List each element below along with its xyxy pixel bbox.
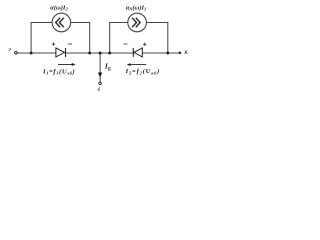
current source J1 circle (left) xyxy=(52,13,71,32)
diode VD1 (left, emitter junction) triangle xyxy=(56,48,65,57)
wire left loop right vertical xyxy=(89,23,91,54)
wire left loop top left xyxy=(31,22,53,24)
diode VD2 (right, collector junction) triangle xyxy=(134,48,142,57)
terminal base (open circle) xyxy=(99,82,102,85)
current arrow IB (on base branch, pointing down) xyxy=(98,73,102,78)
wire right loop left vertical xyxy=(109,23,111,54)
current source J2 circle (right) xyxy=(128,13,147,32)
svg-text:I2=f2(Uкб): I2=f2(Uкб) xyxy=(125,68,161,75)
current arrow I2 (under right diode, pointing left) xyxy=(127,63,146,66)
label - (left diode cathode) xyxy=(68,43,72,45)
svg-text:к: к xyxy=(184,47,188,56)
wire bottom rail right segment xyxy=(142,52,179,54)
label + (left diode anode) xyxy=(52,42,56,45)
current source J1 chevrons << xyxy=(56,18,64,28)
svg-text:э: э xyxy=(8,47,11,53)
terminal emitter (open circle) xyxy=(15,52,18,55)
svg-text:б: б xyxy=(98,86,101,93)
wire bottom rail left segment xyxy=(18,52,56,54)
svg-text:I1=f1(Uэб): I1=f1(Uэб) xyxy=(42,68,75,75)
svg-text:IБ: IБ xyxy=(104,62,112,73)
diode VD1 cathode bar xyxy=(65,48,67,57)
svg-text:α(ω)I2: α(ω)I2 xyxy=(50,4,68,11)
svg-text:αN(ω)I1: αN(ω)I1 xyxy=(126,4,147,11)
wire bottom rail middle segment xyxy=(66,52,134,54)
wire base branch vertical xyxy=(99,53,101,82)
label - (right diode cathode) xyxy=(124,43,128,45)
wire right loop right vertical xyxy=(167,23,169,54)
label + (right diode anode) xyxy=(143,43,147,46)
wire left loop top right xyxy=(71,22,91,24)
diode VD2 cathode bar xyxy=(132,48,134,57)
wire right loop top right xyxy=(146,22,168,24)
terminal collector (dot) xyxy=(179,51,182,54)
current source J2 chevrons >> xyxy=(132,18,140,28)
junction node dots xyxy=(30,52,170,55)
wire right loop top left xyxy=(109,22,128,24)
current arrow I1 (under left diode, pointing right) xyxy=(58,63,76,66)
wire left loop left vertical xyxy=(30,23,32,54)
